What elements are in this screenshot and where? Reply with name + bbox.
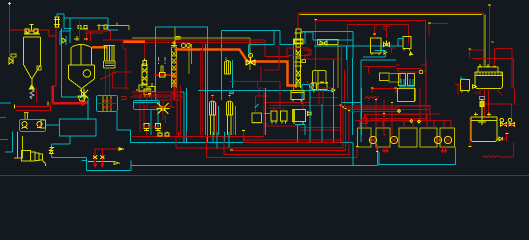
column C2 tower [172, 47, 177, 88]
heater H2 cyan [235, 106, 237, 135]
blower outlet diagonal [42, 160, 45, 166]
heater H2 [226, 101, 233, 135]
frame ticks [371, 87, 397, 89]
red grid right2 [355, 60, 451, 121]
heater H2 red riser [230, 96, 234, 135]
pipe red right column [123, 40, 126, 90]
pipe cyan pair mid [177, 88, 187, 142]
pipe red right run [103, 39, 123, 41]
vessel VD1 feed red [374, 26, 377, 38]
duct orange main [175, 50, 297, 86]
valves in box [320, 41, 327, 45]
pipe red thick conveyor [53, 86, 84, 103]
yellow box bottom2 [376, 128, 390, 147]
cluster red diagonal [172, 92, 176, 97]
tank row B [420, 128, 437, 147]
red stub right edge [513, 89, 516, 105]
tick top right zig [506, 133, 509, 135]
reactor R1 body [475, 72, 502, 88]
duct orange mid stub [124, 41, 146, 44]
pipe cyan S drop [51, 136, 70, 148]
equip cluster yellow A [136, 82, 175, 100]
valve on duct [246, 58, 255, 66]
red squiggle heater [365, 97, 379, 99]
small vessel left of R1 [461, 79, 470, 92]
tick yellow ov3 [428, 22, 431, 24]
label tick header [230, 92, 234, 94]
pumps red tie [143, 127, 162, 135]
column C3 body [294, 33, 304, 88]
AV top nozzles [474, 113, 491, 116]
arrow conveyor [82, 100, 88, 106]
spray arrowheads down [94, 164, 104, 167]
heater nodes yellow [212, 95, 231, 97]
cyan stub left edge [0, 102, 11, 104]
R1 riser tick [488, 5, 494, 42]
red spray header [95, 149, 120, 165]
flexible connector gray [30, 89, 34, 99]
AV red top branch [485, 104, 512, 127]
pipe red E1 right bracket [121, 97, 126, 100]
vessels pair VL [271, 111, 287, 124]
tank row C [440, 128, 455, 147]
drum D1 hatch [293, 111, 295, 121]
frame left tick 2 [0, 139, 8, 141]
pipe cyan U-box top [156, 27, 209, 142]
pipe cyan long top [62, 18, 119, 97]
vessel VD1 right [371, 38, 381, 55]
bus junction ticks [339, 105, 350, 110]
pipe cyan blower left [5, 132, 13, 153]
AV shaft collar [480, 102, 484, 107]
seal pot red mesh [310, 88, 338, 104]
pipe cyan pumpbox right [46, 124, 60, 126]
tower T3 small [225, 61, 231, 75]
bagfilter diagonal red [100, 73, 116, 80]
pump P1 legs [22, 127, 28, 130]
pipe cyan E1 outlet [117, 112, 131, 143]
tank row red drops [360, 114, 451, 128]
pump risers yellow [24, 113, 29, 120]
pit tank red drops2 [383, 146, 389, 153]
silo V1 agitator motor [25, 29, 38, 33]
filter F0 small [54, 17, 60, 27]
AV motor [480, 97, 485, 100]
R1 bottom right diagonal [497, 90, 502, 95]
silo V1 outlet arrow [29, 85, 34, 89]
red mesh center [264, 81, 340, 130]
pipe cyan to mixer [62, 97, 89, 120]
column C1 top fittings [144, 44, 146, 58]
vessel V2 bottom fitting [78, 89, 86, 101]
pipe olive vertical [205, 44, 207, 135]
nested red L4 [244, 106, 341, 143]
red corner right of heaters [256, 88, 269, 135]
vessel V2 top nozzles [74, 20, 88, 41]
pipe cyan V2 left [60, 31, 70, 45]
pipe red to silo [10, 28, 57, 86]
pipe red thick C1 [154, 75, 174, 100]
pumps on header [158, 132, 169, 137]
tank olive right [389, 74, 400, 82]
column C1 bottom vessel [144, 89, 151, 97]
silo V1 body [24, 37, 41, 79]
vent tick T1 [8, 2, 11, 5]
red box notch [304, 50, 311, 55]
pipe cyan from F0 [57, 14, 64, 18]
nested red L5 [207, 137, 358, 158]
pipe red pair lower [16, 103, 51, 111]
mixer MX star [157, 102, 170, 116]
pipe red right of T3 [229, 82, 280, 89]
pipe cyan VD1 [363, 51, 386, 57]
column C3 bright collar [295, 40, 304, 43]
VT cyan stubs [396, 39, 403, 47]
mixer red cross pipes [150, 100, 175, 120]
cyan long mid bottom [131, 142, 353, 144]
pipe cyan branch right [222, 31, 294, 101]
red corner right bottom [264, 139, 341, 141]
valve small vessel [473, 85, 477, 89]
nested red L2 [231, 110, 346, 151]
valve pair top [501, 123, 507, 127]
pipe red box right [113, 72, 133, 88]
small tank TK0 [41, 120, 46, 128]
cyan jog to valve [249, 31, 275, 53]
bagfilter hopper [104, 61, 116, 68]
orange duct V2 to filter [92, 46, 107, 49]
pipe cyan box top long [293, 32, 353, 90]
pipe red mid verticals [201, 44, 203, 135]
red horiz 2 into R1 [473, 59, 514, 89]
red frame top right [372, 89, 396, 94]
yellow box right of heaters [252, 113, 261, 122]
tick R1 left [469, 48, 472, 50]
AV side red pipe [503, 132, 507, 142]
pump PB2 internals [392, 138, 397, 142]
pipe red long mid2 [145, 42, 264, 44]
tank yellow small right [380, 73, 389, 80]
VL cyan [264, 88, 305, 135]
column C3 side nozzle [302, 60, 306, 63]
pipe red bagfilter drop [106, 68, 110, 96]
blower B1 stepped [21, 151, 42, 162]
red bus horizontals [340, 106, 430, 111]
valve VD1 b [384, 51, 387, 55]
red horiz into R1 [470, 49, 512, 89]
cyan diagonal tag [255, 104, 259, 108]
valve actuator circle [249, 54, 253, 58]
pump red dots [23, 126, 40, 128]
red header bottom long [132, 137, 264, 140]
pipe yellow blower risers [14, 132, 23, 159]
pipe olive valve box drop [337, 45, 339, 88]
vessel V2 red feed [79, 20, 81, 41]
pipe red top cluster [85, 31, 111, 41]
seal pot compartments [312, 83, 327, 93]
valve pair2 [509, 123, 515, 127]
agitated vessel AV risers [485, 90, 489, 117]
valves pair VD1 [384, 41, 390, 47]
pipe red feed left [9, 4, 11, 58]
cyan pit tank [378, 147, 456, 165]
pump PB4 internals [446, 138, 451, 142]
valve pair circles [500, 118, 504, 122]
pump PB1 internals [371, 138, 376, 142]
red bus verticals [340, 106, 349, 155]
pipe red overhead 3 [348, 25, 409, 100]
pump PB2 circle [390, 136, 397, 143]
pipe red bright long vert [342, 44, 345, 106]
AV left drop [469, 117, 471, 147]
pipe red y66 right [363, 66, 396, 73]
pump PB3 internals [436, 138, 441, 142]
pump P2 [37, 122, 42, 127]
heater H1 red riser [213, 96, 217, 135]
olive box bottom [357, 128, 371, 147]
tick L4 top [242, 130, 245, 132]
pipe yellow long mid [132, 38, 250, 70]
yellow valve box [318, 40, 339, 45]
pump P1 [22, 122, 27, 127]
tank cyan open [82, 160, 131, 170]
pipe cyan long right verticals [314, 46, 397, 142]
pipe cyan long verticals center [310, 60, 334, 142]
cluster cyan lines A [134, 103, 160, 136]
column C2 top nozzle [171, 41, 177, 47]
red actuator symbol [362, 114, 367, 123]
instrument row 2 [97, 24, 107, 30]
VT arrow [410, 52, 413, 55]
exchanger E1 red crosses [98, 100, 116, 109]
vessel V2 body [69, 48, 95, 89]
mixer MX circles [161, 106, 165, 110]
pipe red col right area [305, 56, 342, 59]
red drop from duct [259, 66, 262, 95]
cyan verticals to bottom line [353, 143, 379, 166]
pipe red short top right [429, 24, 448, 37]
pipe cyan T3 [226, 57, 233, 88]
red piping small vessel [455, 85, 480, 95]
cyan long bottom [131, 164, 378, 166]
pump P2 legs [37, 127, 42, 129]
exchanger E1 internals yellow [103, 96, 111, 111]
red header drops [179, 132, 187, 137]
frame left tick 1 [0, 117, 6, 119]
pipe red long mid [103, 40, 289, 56]
instrument row yellow [78, 26, 88, 30]
tick node overhead2 [315, 19, 318, 21]
exchanger E1 box cyan [97, 96, 118, 112]
flow element FE yellow [176, 37, 180, 40]
R1 top band yellow [478, 67, 498, 72]
column C3 top fitting [295, 29, 303, 33]
spray valves [93, 156, 104, 160]
cluster pipes red A [130, 58, 185, 135]
pipe red col left vert [264, 44, 279, 70]
AV shaft [478, 100, 486, 126]
cluster red drop [377, 134, 385, 152]
red grid right [364, 100, 426, 135]
valve S yellow [50, 148, 54, 154]
cyan drops to line [213, 104, 322, 149]
tank row A [399, 128, 417, 147]
pump PB4 circle [444, 136, 451, 143]
vessel VT topleft small [403, 37, 411, 51]
seal pot cyan inlet [302, 84, 313, 104]
silo V1 side fitting [37, 66, 41, 70]
U-pipe yellow seal1 [310, 71, 327, 89]
node circle yellow [419, 70, 423, 74]
grid2 nodes [398, 110, 421, 124]
pumps P34 yellow [144, 124, 161, 131]
red to node [398, 69, 426, 72]
drum D0 upper [291, 91, 304, 102]
actuator HV1 [11, 54, 16, 57]
seal pipes up [161, 66, 163, 72]
column C1 top yellow [142, 59, 148, 66]
seal pot ticks [312, 83, 329, 90]
heater H1 cyan [218, 106, 220, 135]
pump PB3 circle [434, 136, 441, 143]
VL piping red cyan [269, 108, 284, 111]
reactor R1 top nozzles [478, 64, 496, 67]
pipe yellow top [97, 23, 129, 31]
bagfilter tubes [104, 46, 116, 62]
valve HV1 [9, 58, 13, 64]
spray arrow [119, 148, 123, 150]
reactor R1 risers [483, 6, 494, 67]
pump PB1 circle [369, 136, 376, 143]
red elbow below VT [396, 65, 426, 69]
red tie valves [504, 123, 515, 125]
tick yellow pair lower [15, 102, 49, 109]
cyan box bottom left [60, 119, 96, 136]
pipe cyan long heater header [198, 90, 332, 92]
grid nodes [375, 100, 393, 114]
R1 hatch band [477, 72, 501, 76]
tick VD1 [373, 33, 376, 35]
cluster cyan box A [134, 101, 160, 110]
valve V2 left [62, 38, 66, 43]
pipe cyan col right jog [303, 32, 353, 40]
column C1 small [142, 64, 147, 88]
seal pot valve right [332, 88, 335, 92]
TL cyan internals [399, 79, 415, 87]
mixer star symbol [80, 89, 88, 100]
pipe red VD1 bits [392, 44, 396, 53]
pump box P12 cyan [20, 120, 46, 132]
AV left drop tick [468, 146, 471, 148]
nested red L1 [224, 111, 349, 155]
AV body [471, 117, 497, 142]
drum D1 center [293, 110, 306, 125]
nested red L3 [176, 108, 343, 148]
pipe red overhead 2 [316, 21, 426, 89]
vessel V2 circle symbol [83, 70, 91, 78]
red box around column top [287, 48, 309, 56]
tick on L2 [230, 147, 359, 150]
pipe red drop V1 [36, 88, 38, 103]
red zigzag flex [483, 142, 514, 158]
frame bottom line [0, 175, 529, 177]
small vessel cyan top [461, 77, 465, 80]
valve right of D1 [308, 112, 312, 116]
AV side valve [497, 137, 503, 141]
vessel V2 dome [71, 44, 91, 65]
ticks gray pair [159, 57, 166, 64]
cluster tick [376, 151, 379, 153]
heater H1 [209, 101, 216, 135]
silo V1 outlet pipe [31, 79, 33, 85]
red line under yellow box [252, 123, 268, 125]
pipe cyan to tank run [51, 154, 86, 160]
tanks small TL pair [399, 74, 415, 86]
pipe yellow C2 riser [174, 27, 176, 47]
cyan jog bus [342, 88, 362, 135]
pipe red+yellow overhead pair [298, 13, 483, 67]
tank C red drops [441, 146, 447, 153]
tick on L1 [231, 149, 233, 151]
inline device on red [160, 73, 166, 78]
box cyan edge [415, 88, 417, 101]
vent circles on duct [182, 44, 186, 48]
cyan yellow box mid [398, 89, 415, 102]
red elbow top right [383, 27, 389, 38]
silo V1 top nozzles [24, 24, 40, 34]
pipe red overhead drop to column [297, 13, 299, 29]
tank inner yellow level [88, 162, 119, 165]
